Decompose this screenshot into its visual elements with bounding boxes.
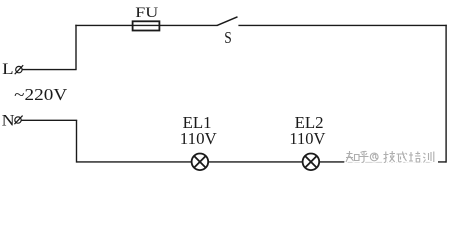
terminal L <box>15 65 24 74</box>
wire lower vertical drop <box>76 120 78 162</box>
lamp EL2 <box>303 154 320 171</box>
switch S blade <box>217 17 238 26</box>
fuse FU <box>133 21 160 30</box>
svg-text:110V: 110V <box>180 129 218 148</box>
svg-text:FU: FU <box>135 5 158 21</box>
wire switch to right vertical <box>238 24 446 26</box>
wire left vertical riser <box>75 25 77 70</box>
svg-text:N: N <box>2 112 15 129</box>
wire right vertical drop <box>445 25 447 163</box>
svg-text:L: L <box>2 61 14 78</box>
terminal N <box>14 116 22 125</box>
lamp EL1 <box>192 154 209 171</box>
wire top run to switch <box>75 24 217 26</box>
wire bottom run <box>77 161 447 163</box>
wire L to left vertical <box>22 69 77 71</box>
svg-text:S: S <box>224 28 232 47</box>
wire N to lower vertical <box>21 119 77 121</box>
svg-text:~220V: ~220V <box>14 85 68 104</box>
svg-text:110V: 110V <box>289 129 326 148</box>
